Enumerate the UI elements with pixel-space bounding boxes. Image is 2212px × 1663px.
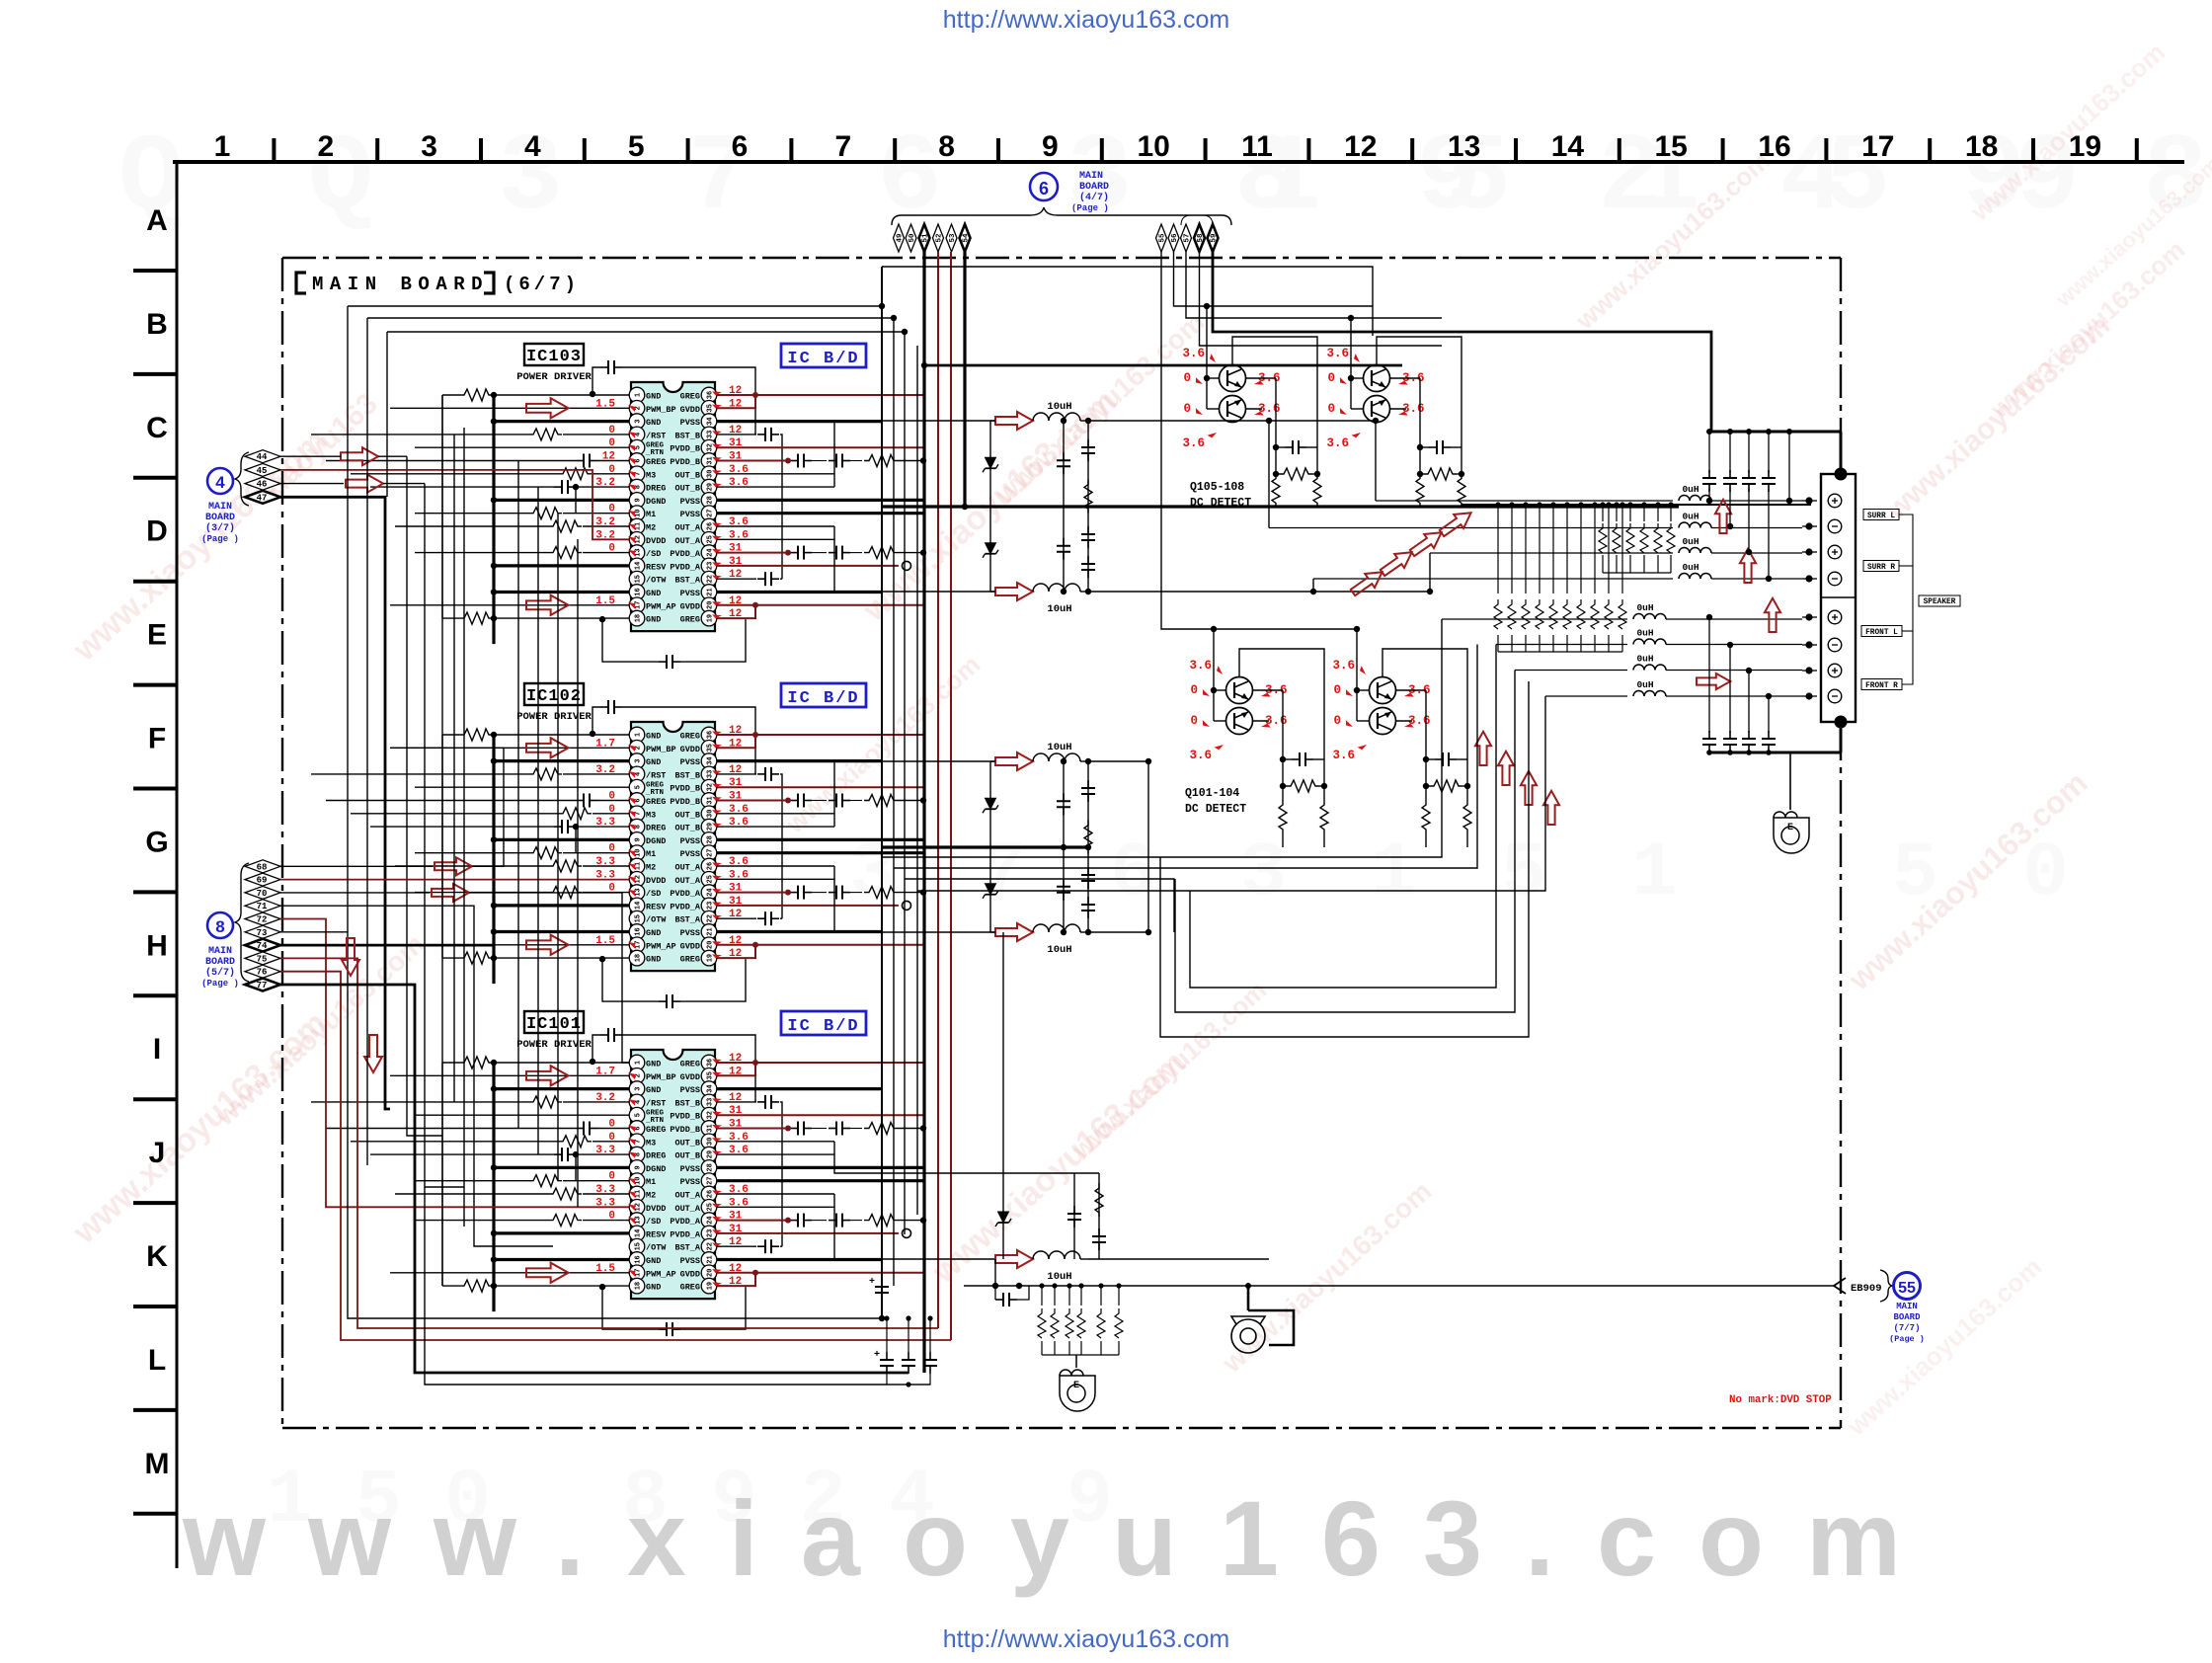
speaker connector body bbox=[1821, 474, 1856, 722]
svg-text:DREG: DREG bbox=[646, 824, 666, 833]
bus horizontal links top bbox=[882, 267, 1373, 336]
svg-text:GREG: GREG bbox=[646, 457, 666, 467]
svg-text:2: 2 bbox=[317, 130, 334, 163]
resistor bank upper bbox=[1602, 505, 1604, 521]
svg-text:(6/7): (6/7) bbox=[504, 274, 580, 295]
svg-text:OUT_A: OUT_A bbox=[674, 536, 700, 546]
svg-text:FRONT L: FRONT L bbox=[1865, 629, 1898, 637]
svg-text:DVDD: DVDD bbox=[646, 536, 666, 546]
wire CN8-77 thick bbox=[280, 985, 908, 1373]
svg-text:IC103: IC103 bbox=[526, 348, 582, 366]
svg-text:58: 58 bbox=[1197, 233, 1205, 243]
svg-text:PVDD_A: PVDD_A bbox=[670, 889, 701, 899]
connector CN6 to MAIN BOARD 4/7 bbox=[892, 171, 1231, 225]
svg-text:0: 0 bbox=[1327, 371, 1335, 385]
svg-text:RESV: RESV bbox=[646, 562, 667, 572]
svg-text:PWM_AP: PWM_AP bbox=[646, 601, 676, 611]
svg-text:76: 76 bbox=[257, 968, 268, 978]
svg-text:OUT_B: OUT_B bbox=[674, 1151, 700, 1161]
svg-text:PVDD_B: PVDD_B bbox=[670, 444, 700, 454]
svg-text:(Page ): (Page ) bbox=[1889, 1334, 1925, 1344]
svg-text:GND: GND bbox=[646, 955, 661, 965]
svg-text:PWM_BP: PWM_BP bbox=[646, 1072, 676, 1082]
svg-text:GND: GND bbox=[646, 1085, 661, 1095]
svg-text:/OTW: /OTW bbox=[646, 1243, 667, 1253]
transistor Q104 bbox=[1370, 708, 1396, 735]
svg-text:(7/7): (7/7) bbox=[1893, 1323, 1920, 1333]
svg-text:/RST: /RST bbox=[646, 1098, 666, 1108]
svg-text:45: 45 bbox=[257, 466, 268, 476]
IC103 OUT_B riser to filter A bbox=[834, 421, 995, 474]
svg-text:12: 12 bbox=[635, 875, 643, 883]
svg-text:74: 74 bbox=[257, 941, 268, 951]
svg-text:GVDD: GVDD bbox=[680, 745, 700, 754]
svg-text:50: 50 bbox=[908, 233, 916, 243]
svg-text:70: 70 bbox=[257, 889, 268, 899]
wire CN8-72 red to IC101 pin12 bbox=[280, 919, 629, 1208]
svg-text:6: 6 bbox=[732, 130, 749, 163]
transistor Q105 bbox=[1220, 365, 1246, 392]
svg-text:15: 15 bbox=[635, 575, 643, 583]
wire CN8-71 bbox=[280, 906, 553, 1246]
speaker label connections bbox=[1899, 515, 1913, 684]
svg-text:0: 0 bbox=[1327, 402, 1335, 416]
caps at speaker bottom bbox=[1709, 752, 1841, 754]
svg-text:0: 0 bbox=[1183, 402, 1191, 416]
svg-text:PVDD_B: PVDD_B bbox=[670, 457, 700, 467]
wires right of IC101 bbox=[717, 1060, 926, 1286]
svg-text:PVSS: PVSS bbox=[680, 1085, 700, 1095]
svg-text:OUT_A: OUT_A bbox=[674, 863, 700, 873]
svg-text:EB909: EB909 bbox=[1851, 1283, 1882, 1295]
connector CN4 to MAIN BOARD 3/7 bbox=[201, 452, 249, 544]
svg-text:RESV: RESV bbox=[646, 902, 667, 911]
connector CN4 pins 44-47 bbox=[245, 450, 280, 463]
svg-text:34: 34 bbox=[707, 756, 715, 764]
svg-text:OUT_A: OUT_A bbox=[674, 1204, 700, 1214]
svg-text:B: B bbox=[146, 308, 168, 341]
svg-text:FRONT R: FRONT R bbox=[1865, 682, 1898, 690]
svg-text:IC102: IC102 bbox=[526, 687, 582, 706]
svg-text:21: 21 bbox=[707, 927, 715, 935]
svg-text:14: 14 bbox=[1551, 130, 1585, 163]
svg-text:PVSS: PVSS bbox=[680, 757, 700, 767]
svg-text:GREG: GREG bbox=[680, 615, 700, 625]
bottom resistor group bbox=[983, 1286, 985, 1302]
svg-text:16: 16 bbox=[635, 1255, 643, 1263]
svg-text:/SD: /SD bbox=[646, 549, 661, 559]
svg-text:8: 8 bbox=[635, 825, 643, 829]
earth terminal bottom bbox=[1075, 1355, 1077, 1368]
svg-text:4: 4 bbox=[635, 433, 643, 436]
svg-text:18: 18 bbox=[1965, 130, 1998, 163]
svg-text:M1: M1 bbox=[646, 510, 656, 519]
svg-text:10uH: 10uH bbox=[1047, 401, 1071, 413]
svg-text:1: 1 bbox=[635, 733, 643, 737]
speaker terminals bbox=[1828, 494, 1842, 508]
svg-text:DREG: DREG bbox=[646, 484, 666, 494]
bottom cap IC102 bbox=[602, 959, 659, 1001]
svg-text:0: 0 bbox=[1190, 683, 1198, 697]
power driver IC IC103 bbox=[516, 344, 866, 631]
svg-text:16: 16 bbox=[635, 588, 643, 595]
svg-text:0: 0 bbox=[1333, 714, 1341, 728]
svg-text:PVSS: PVSS bbox=[680, 589, 700, 598]
svg-text:14: 14 bbox=[635, 562, 643, 570]
svg-text:52: 52 bbox=[936, 233, 944, 243]
svg-text:A: A bbox=[146, 204, 168, 237]
svg-text:GND: GND bbox=[646, 928, 661, 938]
svg-text:15: 15 bbox=[1655, 130, 1688, 163]
svg-text:_RTN: _RTN bbox=[645, 789, 664, 797]
svg-text:DC DETECT: DC DETECT bbox=[1185, 803, 1246, 816]
svg-text:75: 75 bbox=[257, 954, 268, 964]
svg-text:PVDD_A: PVDD_A bbox=[670, 562, 701, 572]
svg-text:I: I bbox=[153, 1033, 161, 1066]
svg-text:GVDD: GVDD bbox=[680, 601, 700, 611]
wires left of IC103 bbox=[311, 360, 755, 669]
svg-text:RESV: RESV bbox=[646, 1229, 667, 1239]
svg-text:0uH: 0uH bbox=[1636, 679, 1653, 690]
wire CN8-70 bbox=[280, 892, 430, 894]
svg-text:17: 17 bbox=[635, 941, 643, 949]
svg-text:18: 18 bbox=[635, 1282, 643, 1290]
svg-text:PVDD_A: PVDD_A bbox=[670, 549, 701, 559]
svg-text:F: F bbox=[148, 723, 166, 755]
transistor cluster wires bbox=[1356, 629, 1358, 721]
svg-text:PVSS: PVSS bbox=[680, 497, 700, 507]
svg-text:BOARD: BOARD bbox=[1893, 1312, 1921, 1322]
transistor Q103 bbox=[1370, 677, 1396, 704]
wires from CN8 to ICs bbox=[280, 865, 433, 867]
svg-text:/RST: /RST bbox=[646, 770, 666, 780]
svg-text:PVDD_B: PVDD_B bbox=[670, 797, 700, 807]
svg-text:SURR L: SURR L bbox=[1867, 513, 1895, 520]
pwm arrows IC101 bbox=[526, 1066, 569, 1085]
transistor cluster wires bbox=[1206, 306, 1208, 409]
connector CN8 to MAIN BOARD 5/7 bbox=[201, 863, 249, 989]
SPEAKER box bbox=[1919, 595, 1960, 606]
svg-text:10uH: 10uH bbox=[1047, 944, 1071, 956]
filter caps bbox=[1063, 421, 1065, 592]
svg-text:10: 10 bbox=[1138, 130, 1170, 163]
top cap IC101 bbox=[592, 1035, 600, 1051]
wire CN8-76 red bbox=[280, 972, 951, 1340]
speaker wire labels bbox=[1863, 510, 1899, 520]
pwm arrows IC102 bbox=[526, 738, 569, 757]
wire CN8-75 red bbox=[280, 958, 938, 1328]
wires right of IC102 bbox=[717, 732, 926, 958]
svg-text:E: E bbox=[1073, 1381, 1079, 1391]
grid ruler top ticks bbox=[272, 138, 276, 162]
svg-text:0uH: 0uH bbox=[1682, 512, 1698, 522]
svg-text:D: D bbox=[146, 515, 168, 548]
svg-text:8: 8 bbox=[635, 1152, 643, 1156]
svg-text:PWM_AP: PWM_AP bbox=[646, 1269, 676, 1279]
svg-text:MAIN: MAIN bbox=[208, 946, 232, 957]
svg-text:POWER DRIVER: POWER DRIVER bbox=[516, 371, 592, 383]
connector CN6 pins 49-59 bbox=[894, 224, 905, 252]
svg-text:PVDD_A: PVDD_A bbox=[670, 1229, 701, 1239]
svg-text:M1: M1 bbox=[646, 849, 656, 859]
svg-text:PVSS: PVSS bbox=[680, 836, 700, 846]
svg-text:PVSS: PVSS bbox=[680, 1164, 700, 1174]
svg-text:0uH: 0uH bbox=[1636, 602, 1653, 613]
svg-text:14: 14 bbox=[635, 902, 643, 910]
svg-text:3.6: 3.6 bbox=[1326, 347, 1349, 360]
svg-text:1: 1 bbox=[1631, 831, 1678, 917]
svg-text:71: 71 bbox=[257, 902, 268, 911]
inductor 10uH bbox=[995, 923, 1033, 941]
svg-text:9: 9 bbox=[1042, 130, 1059, 163]
svg-text:OUT_A: OUT_A bbox=[674, 876, 700, 886]
central bus verticals bbox=[881, 267, 883, 1318]
transistor cluster wires bbox=[1350, 318, 1352, 409]
svg-text:44: 44 bbox=[257, 452, 268, 462]
svg-text:DGND: DGND bbox=[646, 836, 666, 846]
svg-text:10uH: 10uH bbox=[1047, 742, 1071, 753]
wire CN8-69 red to IC102 pin12 bbox=[280, 879, 629, 881]
svg-text:GND: GND bbox=[646, 589, 661, 598]
svg-text:GND: GND bbox=[646, 1256, 661, 1266]
power driver IC IC101 bbox=[516, 1011, 866, 1299]
svg-text:(Page ): (Page ) bbox=[201, 534, 239, 544]
svg-text:BOARD: BOARD bbox=[1079, 182, 1109, 193]
inductor 10uH bbox=[995, 752, 1033, 770]
grid ruler left line bbox=[176, 162, 179, 1568]
svg-text:GND: GND bbox=[646, 418, 661, 428]
svg-text:8: 8 bbox=[215, 917, 224, 936]
svg-text:9: 9 bbox=[635, 498, 643, 502]
svg-text:1: 1 bbox=[635, 1061, 643, 1065]
wires left of IC101 bbox=[311, 1028, 755, 1336]
svg-text:PWM_BP: PWM_BP bbox=[646, 745, 676, 754]
svg-text:16: 16 bbox=[1758, 130, 1790, 163]
svg-text:7: 7 bbox=[834, 130, 851, 163]
svg-text:13: 13 bbox=[1448, 130, 1480, 163]
svg-text:OUT_B: OUT_B bbox=[674, 470, 700, 480]
svg-text:PVSS: PVSS bbox=[680, 510, 700, 519]
svg-text:5: 5 bbox=[1501, 831, 1547, 917]
svg-text:77: 77 bbox=[257, 981, 268, 990]
svg-text:PVSS: PVSS bbox=[680, 1177, 700, 1187]
thick ground bus row G bbox=[882, 845, 1089, 848]
svg-text:IC B/D: IC B/D bbox=[787, 350, 859, 368]
svg-text:M2: M2 bbox=[646, 1191, 656, 1201]
svg-text:PWM_BP: PWM_BP bbox=[646, 405, 676, 415]
svg-text:46: 46 bbox=[257, 480, 268, 490]
svg-text:0uH: 0uH bbox=[1682, 562, 1698, 573]
svg-text:0uH: 0uH bbox=[1636, 654, 1653, 665]
svg-text:BST_B: BST_B bbox=[674, 1098, 700, 1108]
main board title bbox=[296, 273, 494, 293]
inductor 10uH bbox=[995, 583, 1033, 600]
svg-text:GREG: GREG bbox=[646, 1125, 666, 1135]
svg-text:DGND: DGND bbox=[646, 1164, 666, 1174]
svg-text:(Page ): (Page ) bbox=[201, 979, 239, 989]
svg-text:53: 53 bbox=[949, 233, 957, 243]
svg-text:OUT_A: OUT_A bbox=[674, 523, 700, 533]
svg-text:/SD: /SD bbox=[646, 889, 661, 899]
svg-text:1: 1 bbox=[1371, 831, 1417, 917]
svg-text:0uH: 0uH bbox=[1682, 536, 1698, 547]
svg-text:BOARD: BOARD bbox=[205, 957, 235, 968]
transistor Q107 bbox=[1364, 365, 1390, 392]
svg-text:10: 10 bbox=[635, 848, 643, 856]
svg-text:54: 54 bbox=[963, 233, 971, 243]
svg-text:12: 12 bbox=[635, 535, 643, 543]
red diag arrows mid bbox=[1348, 565, 1386, 599]
svg-text:BST_A: BST_A bbox=[674, 1243, 700, 1253]
svg-text:2: 2 bbox=[635, 1073, 643, 1077]
svg-text:BST_B: BST_B bbox=[674, 770, 700, 780]
svg-text:13: 13 bbox=[635, 888, 643, 896]
main board dashed outline bbox=[282, 257, 1841, 259]
svg-text:GND: GND bbox=[646, 757, 661, 767]
svg-text:/SD: /SD bbox=[646, 1217, 661, 1227]
red up arrows lower left group bbox=[1475, 732, 1491, 765]
svg-text:17: 17 bbox=[635, 1269, 643, 1277]
svg-text:0: 0 bbox=[1333, 683, 1341, 697]
svg-text:No mark:DVD STOP: No mark:DVD STOP bbox=[1729, 1394, 1832, 1406]
svg-text:12: 12 bbox=[635, 1203, 643, 1211]
top cap IC103 bbox=[592, 367, 600, 383]
svg-text:BST_A: BST_A bbox=[674, 915, 700, 925]
svg-text:GND: GND bbox=[646, 1060, 661, 1069]
svg-text:_RTN: _RTN bbox=[645, 1117, 664, 1125]
left bus verticals IC101 bbox=[492, 1063, 495, 1311]
svg-text:L: L bbox=[148, 1344, 166, 1377]
svg-text:16: 16 bbox=[635, 927, 643, 935]
svg-text:17: 17 bbox=[1861, 130, 1894, 163]
svg-text:PWM_AP: PWM_AP bbox=[646, 941, 676, 951]
svg-text:2: 2 bbox=[635, 406, 643, 410]
svg-text:17: 17 bbox=[635, 601, 643, 609]
svg-text:28: 28 bbox=[707, 496, 715, 504]
svg-text:14: 14 bbox=[635, 1229, 643, 1237]
svg-text:21: 21 bbox=[707, 1255, 715, 1263]
thick ground bus row C bbox=[882, 505, 1679, 508]
svg-text:18: 18 bbox=[635, 954, 643, 962]
svg-text:G: G bbox=[145, 826, 168, 858]
svg-text:GND: GND bbox=[646, 1283, 661, 1293]
output loop wires bbox=[882, 619, 1442, 857]
bottom cap IC101 bbox=[602, 1287, 659, 1329]
svg-text:E: E bbox=[147, 619, 167, 652]
svg-text:12: 12 bbox=[1344, 130, 1377, 163]
svg-text:BST_A: BST_A bbox=[674, 576, 700, 586]
long verticals left of ICs bbox=[453, 435, 455, 1102]
svg-text:PVSS: PVSS bbox=[680, 1256, 700, 1266]
svg-text:M2: M2 bbox=[646, 863, 656, 873]
bottom cap IC103 bbox=[602, 619, 659, 662]
svg-text:7: 7 bbox=[635, 812, 643, 816]
svg-text:GREG: GREG bbox=[680, 732, 700, 742]
inductor 10uH bbox=[995, 412, 1033, 430]
svg-text:OUT_B: OUT_B bbox=[674, 810, 700, 820]
svg-text:10: 10 bbox=[635, 509, 643, 516]
svg-text:GREG: GREG bbox=[680, 1060, 700, 1069]
svg-text:SURR R: SURR R bbox=[1867, 564, 1895, 572]
wire CN4-46 bbox=[280, 483, 344, 485]
svg-text:7: 7 bbox=[635, 472, 643, 476]
transistor Q106 bbox=[1220, 396, 1246, 423]
wire CN4-47 thick bbox=[280, 497, 390, 1109]
svg-text:M2: M2 bbox=[646, 523, 656, 533]
svg-text:6: 6 bbox=[635, 1126, 643, 1130]
svg-text:(5/7): (5/7) bbox=[205, 967, 235, 979]
svg-text:MAIN: MAIN bbox=[1896, 1302, 1918, 1311]
grid ruler left ticks bbox=[133, 269, 177, 273]
svg-text:MAIN: MAIN bbox=[1079, 171, 1103, 182]
bus junction dots bbox=[879, 303, 885, 309]
wires from CN4 to ICs bbox=[341, 447, 378, 465]
svg-text:72: 72 bbox=[257, 915, 268, 925]
svg-text:GREG: GREG bbox=[646, 797, 666, 807]
svg-text:_RTN: _RTN bbox=[645, 449, 664, 457]
svg-text:13: 13 bbox=[635, 1216, 643, 1224]
svg-text:GREG: GREG bbox=[680, 955, 700, 965]
svg-text:Q105-108: Q105-108 bbox=[1190, 481, 1244, 494]
zener diode pair bbox=[989, 761, 991, 932]
grid ruler column numbers bbox=[214, 130, 2101, 163]
feed line risers bbox=[1375, 421, 1377, 501]
svg-text:3.6: 3.6 bbox=[1332, 749, 1355, 762]
svg-text:H: H bbox=[146, 929, 168, 962]
svg-text:http://www.xiaoyu163.com: http://www.xiaoyu163.com bbox=[943, 6, 1229, 34]
svg-text:OUT_A: OUT_A bbox=[674, 1191, 700, 1201]
svg-text:5: 5 bbox=[635, 785, 643, 789]
svg-text:GND: GND bbox=[646, 732, 661, 742]
svg-text:MAIN BOARD: MAIN BOARD bbox=[312, 274, 489, 295]
svg-text:3.6: 3.6 bbox=[1326, 436, 1349, 450]
svg-text:27: 27 bbox=[707, 509, 715, 516]
svg-text:8: 8 bbox=[938, 130, 955, 163]
transistor Q102 bbox=[1226, 708, 1253, 735]
svg-text:11: 11 bbox=[635, 522, 643, 530]
svg-text:0uH: 0uH bbox=[1636, 628, 1653, 639]
svg-text:PVSS: PVSS bbox=[680, 849, 700, 859]
svg-text:/RST: /RST bbox=[646, 431, 666, 440]
grid ruler top line bbox=[173, 160, 2184, 164]
svg-text:49: 49 bbox=[897, 233, 905, 243]
svg-text:DREG: DREG bbox=[646, 1151, 666, 1161]
long bottom wire to EB909 bbox=[964, 1285, 1834, 1287]
svg-text:6: 6 bbox=[1110, 831, 1156, 917]
svg-text:5: 5 bbox=[635, 445, 643, 449]
speaker feed lines surr bbox=[1376, 500, 1673, 502]
svg-text:www.xiaoyu163.com: www.xiaoyu163.com bbox=[182, 1478, 1931, 1598]
connector CN8 pins 68-77 bbox=[245, 860, 280, 873]
svg-text:55: 55 bbox=[1159, 233, 1167, 243]
svg-text:C: C bbox=[146, 412, 168, 444]
svg-text:M1: M1 bbox=[646, 1177, 656, 1187]
svg-text:51: 51 bbox=[922, 233, 930, 243]
cluster resistors bbox=[1429, 780, 1462, 792]
svg-text:28: 28 bbox=[707, 835, 715, 843]
left bus verticals IC102 bbox=[492, 735, 495, 984]
zener diode pair bbox=[989, 421, 991, 592]
svg-text:10uH: 10uH bbox=[1047, 603, 1071, 615]
svg-text:(Page ): (Page ) bbox=[1071, 203, 1109, 213]
caps at speaker top bbox=[1709, 431, 1841, 434]
svg-text:E: E bbox=[1787, 823, 1793, 833]
svg-text:0: 0 bbox=[1190, 714, 1198, 728]
svg-text:BOARD: BOARD bbox=[205, 513, 235, 523]
top cap IC102 bbox=[592, 707, 600, 723]
svg-text:6: 6 bbox=[635, 798, 643, 802]
svg-text:7: 7 bbox=[635, 1140, 643, 1144]
